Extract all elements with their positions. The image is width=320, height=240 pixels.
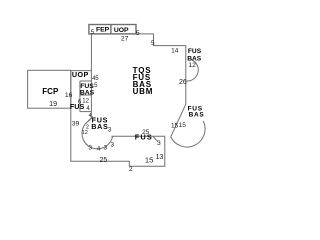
svg-text:2: 2 [129,166,133,173]
svg-text:15: 15 [171,122,179,129]
svg-text:16: 16 [65,92,73,99]
svg-text:5: 5 [151,40,155,47]
svg-text:3: 3 [88,144,92,151]
svg-text:25: 25 [142,129,150,136]
svg-text:3: 3 [157,140,161,147]
svg-text:UBM: UBM [133,87,154,96]
svg-text:12: 12 [82,99,89,105]
svg-text:4: 4 [88,113,91,119]
svg-text:3: 3 [104,144,108,151]
svg-text:BAS: BAS [91,122,108,131]
svg-text:FCP: FCP [42,87,59,96]
svg-text:39: 39 [72,120,80,127]
svg-text:14: 14 [171,48,179,55]
svg-text:5: 5 [136,30,140,37]
svg-text:45: 45 [92,76,99,82]
svg-text:UOP: UOP [72,70,89,79]
svg-text:FEP: FEP [96,27,110,34]
svg-text:27: 27 [121,36,129,43]
svg-text:FUS: FUS [188,48,202,55]
svg-text:4: 4 [97,146,101,153]
svg-text:BAS: BAS [189,111,205,118]
svg-text:12: 12 [188,62,196,69]
svg-text:UOP: UOP [114,27,129,34]
svg-text:3: 3 [108,126,112,133]
svg-text:15: 15 [179,122,187,129]
svg-text:25: 25 [100,157,108,164]
svg-text:5: 5 [91,30,95,36]
svg-text:BAS: BAS [80,90,95,97]
svg-text:26: 26 [179,79,187,86]
svg-text:3: 3 [111,142,115,149]
svg-text:15: 15 [145,155,153,164]
svg-text:13: 13 [156,154,164,161]
svg-text:12: 12 [82,130,88,136]
svg-text:19: 19 [49,99,57,108]
svg-text:5: 5 [94,83,98,89]
